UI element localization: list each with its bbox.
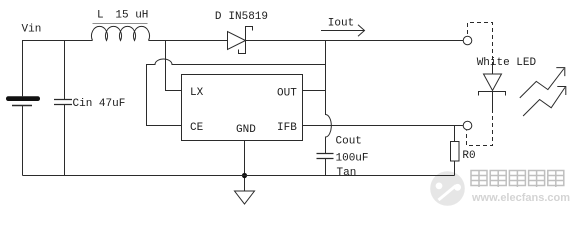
junction dot ground node <box>242 173 247 178</box>
wire LX to node A <box>166 41 182 91</box>
wire LED anode solid <box>492 62 494 74</box>
svg-text:Iout: Iout <box>328 18 354 30</box>
terminal top circle <box>463 36 472 45</box>
diode D IN5819 <box>228 27 253 54</box>
resistor R0 <box>451 126 460 176</box>
svg-text:Cout: Cout <box>336 136 362 148</box>
terminal bottom circle <box>463 121 472 130</box>
svg-text:Tan: Tan <box>337 167 357 179</box>
wire bottom rail <box>23 175 455 177</box>
svg-text:LX: LX <box>190 87 204 99</box>
svg-text:www.elecfans.com: www.elecfans.com <box>471 192 570 204</box>
wire OUT pin <box>303 90 326 92</box>
capacitor Cin <box>54 41 72 176</box>
svg-text:IN5819: IN5819 <box>228 11 268 23</box>
svg-text:100uF: 100uF <box>336 153 369 165</box>
wire diode to output terminal <box>246 40 464 42</box>
svg-text:OUT: OUT <box>277 88 297 100</box>
arrow Iout <box>321 25 365 36</box>
battery B1 <box>6 96 40 175</box>
inductor L1 <box>91 26 149 40</box>
svg-text:IFB: IFB <box>277 122 297 134</box>
svg-text:GND: GND <box>236 124 256 136</box>
svg-text:Vin: Vin <box>22 24 42 36</box>
svg-text:15 uH: 15 uH <box>115 10 148 22</box>
dashed lead LED anode <box>468 23 493 63</box>
wire L to diode <box>149 40 228 42</box>
svg-text:Cin 47uF: Cin 47uF <box>73 98 126 110</box>
svg-text:CE: CE <box>190 122 204 134</box>
op-amp U1 box <box>182 75 303 141</box>
watermark logo disc <box>430 171 465 206</box>
wire GND stem <box>244 141 246 192</box>
wire top rail left (Vin to L) <box>23 41 93 97</box>
dashed lead LED cathode <box>467 109 493 146</box>
LED D2 white <box>479 74 506 109</box>
svg-text:L: L <box>97 10 104 22</box>
svg-text:D: D <box>215 11 222 23</box>
watermark brand glyphs <box>471 171 564 188</box>
wire IFB to LED return <box>303 125 463 127</box>
emission arrow 2 <box>523 87 566 117</box>
label D IN5819 <box>215 11 268 23</box>
svg-text:White LED: White LED <box>477 57 537 69</box>
emission arrow 1 <box>520 68 565 98</box>
capacitor Cout <box>317 154 334 176</box>
svg-text:R0: R0 <box>462 150 475 162</box>
wire OUT vertical with hop <box>326 41 332 154</box>
ground symbol <box>235 191 255 204</box>
wire CE loop <box>147 59 326 126</box>
label L 15 uH <box>93 10 149 24</box>
